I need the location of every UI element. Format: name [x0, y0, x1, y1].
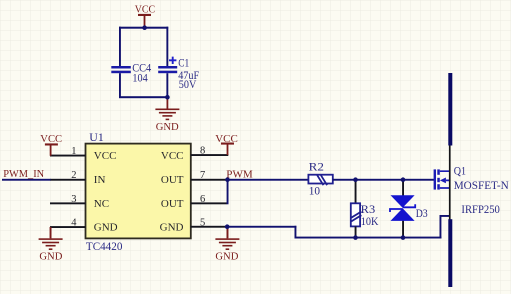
svg-text:NC: NC	[94, 198, 109, 210]
svg-text:VCC: VCC	[40, 133, 62, 145]
svg-text:PWM: PWM	[226, 168, 253, 180]
svg-text:U1: U1	[89, 132, 104, 144]
svg-text:50V: 50V	[179, 79, 197, 91]
svg-text:1: 1	[71, 146, 76, 157]
svg-text:104: 104	[132, 72, 148, 84]
svg-text:GND: GND	[94, 222, 118, 234]
svg-text:C1: C1	[178, 57, 189, 69]
svg-text:10: 10	[309, 186, 321, 198]
svg-text:VCC: VCC	[135, 4, 155, 16]
svg-text:IN: IN	[94, 174, 106, 186]
svg-text:Q1: Q1	[454, 165, 467, 177]
svg-text:GND: GND	[160, 222, 184, 234]
svg-text:IRFP250: IRFP250	[461, 204, 500, 216]
svg-text:R3: R3	[361, 204, 376, 216]
svg-text:2: 2	[71, 170, 76, 181]
svg-text:4: 4	[71, 218, 77, 229]
svg-text:MOSFET-N: MOSFET-N	[454, 180, 510, 192]
svg-text:GND: GND	[39, 251, 62, 263]
svg-text:TC4420: TC4420	[86, 241, 123, 253]
svg-text:PWM_IN: PWM_IN	[3, 168, 44, 180]
svg-text:3: 3	[71, 194, 76, 205]
svg-text:GND: GND	[215, 251, 238, 263]
svg-text:GND: GND	[156, 121, 179, 133]
svg-text:10K: 10K	[361, 216, 379, 228]
svg-text:R2: R2	[309, 162, 325, 174]
svg-text:VCC: VCC	[94, 150, 117, 162]
svg-text:OUT: OUT	[161, 198, 184, 210]
svg-text:D3: D3	[416, 208, 428, 220]
svg-text:OUT: OUT	[161, 174, 184, 186]
svg-text:VCC: VCC	[161, 150, 184, 162]
